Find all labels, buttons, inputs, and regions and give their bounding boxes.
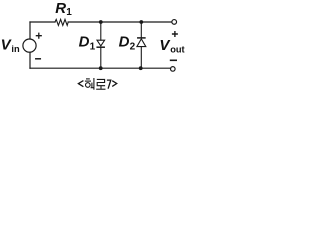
wire top rail left segment (30, 21, 55, 23)
svg-text:1: 1 (90, 41, 96, 52)
caption hangul ro (96, 79, 105, 89)
terminal top output (172, 20, 177, 25)
wire D2 cathode (140, 22, 142, 38)
wire left vertical bottom (29, 52, 31, 68)
svg-text:D: D (119, 33, 130, 50)
output minus sign (171, 59, 177, 61)
source minus sign (36, 58, 41, 60)
node D1 top junction (99, 20, 103, 24)
svg-text:2: 2 (130, 41, 136, 52)
resistor R1 (55, 19, 68, 25)
output plus sign (173, 32, 178, 37)
wire D1 cathode (100, 48, 102, 68)
svg-text:R: R (55, 0, 66, 17)
svg-text:out: out (170, 44, 184, 54)
diode D1 (97, 40, 105, 47)
label Vout (159, 37, 184, 54)
label D1 (79, 33, 96, 52)
label Vin (1, 37, 20, 54)
node D2 bottom junction (139, 66, 143, 70)
caption hangul hoe (85, 78, 94, 90)
caption circuit 7 (78, 80, 116, 89)
node D2 top junction (139, 20, 143, 24)
wire D2 anode (140, 47, 142, 69)
terminal bottom output (171, 67, 176, 72)
svg-text:1: 1 (66, 7, 72, 18)
label R1 (55, 0, 72, 18)
wire top rail right segment (68, 21, 172, 23)
diode D2 (137, 38, 146, 47)
wire bottom rail (30, 67, 171, 69)
svg-text:in: in (11, 44, 20, 54)
source plus sign (36, 33, 41, 38)
node D1 bottom junction (99, 66, 103, 70)
svg-text:D: D (79, 33, 90, 50)
wire left vertical top (29, 22, 31, 39)
wire D1 anode (100, 22, 102, 40)
source Vin circle (23, 39, 36, 52)
label D2 (119, 33, 136, 52)
